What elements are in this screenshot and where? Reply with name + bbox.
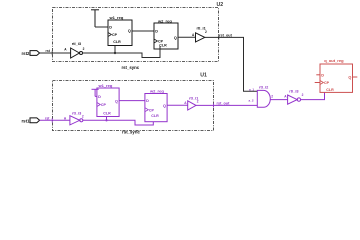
svg-text:U1: U1	[200, 73, 207, 79]
flip-flop w2_reg (U1)	[145, 88, 167, 121]
svg-text:CLR: CLR	[113, 40, 121, 44]
svg-text:rtl_i3: rtl_i3	[72, 41, 82, 46]
svg-text:rtl_i2: rtl_i2	[259, 85, 269, 90]
inverter rtl_i3 (U2)	[71, 48, 83, 58]
wire tick at U2 left boundary	[51, 51, 53, 55]
svg-text:rst_out: rst_out	[219, 33, 233, 37]
and gate rtl_i2	[257, 90, 270, 107]
wire inverter out to CLR nets (U2)	[83, 46, 160, 58]
svg-text:Q: Q	[115, 99, 118, 103]
power VDD (U2)	[91, 10, 99, 27]
wire rst1 to inverter	[40, 119, 70, 121]
wire w2_reg Q to buffer	[178, 36, 196, 38]
svg-text:rst_out: rst_out	[217, 101, 231, 105]
wire and gate to inverter	[270, 99, 287, 101]
wire inverter to q1_reg CLR	[301, 92, 325, 99]
svg-text:CP: CP	[149, 108, 155, 112]
svg-text:rtl_i3: rtl_i3	[289, 88, 299, 93]
svg-text:rst_sync: rst_sync	[122, 130, 140, 135]
svg-text:CLR: CLR	[326, 88, 334, 92]
wire inverter out to CLR nets (U1)	[83, 120, 153, 125]
flip-flop q1_reg	[315, 58, 358, 92]
svg-text:q_out_reg: q_out_reg	[324, 58, 344, 63]
wire rst_out (U1) to and gate	[196, 104, 257, 106]
svg-text:rst_sync: rst_sync	[121, 65, 139, 70]
svg-text:CLR: CLR	[159, 43, 167, 47]
svg-text:2: 2	[82, 114, 84, 118]
wire tick at U1 right boundary	[213, 103, 215, 107]
wire VDD to D of w1_reg (U1)	[95, 95, 97, 97]
flip-flop w1_reg (U2)	[108, 15, 132, 46]
wire VDD to D of w1_reg	[95, 26, 108, 28]
svg-text:Q: Q	[348, 76, 351, 80]
wire Q stub	[353, 76, 358, 78]
svg-text:2: 2	[83, 47, 85, 51]
svg-text:w2_reg: w2_reg	[149, 88, 164, 93]
svg-text:CP: CP	[324, 81, 330, 85]
module box U2	[53, 8, 219, 62]
junction	[114, 52, 116, 54]
svg-text:rst2: rst2	[21, 51, 30, 56]
wire CLR stub w1_reg	[114, 46, 116, 54]
svg-text:2: 2	[197, 99, 199, 103]
svg-text:rst1: rst1	[21, 118, 30, 123]
svg-text:D: D	[109, 26, 112, 30]
wire w1_reg Q to w2_reg D	[132, 30, 154, 32]
svg-text:CP: CP	[101, 103, 107, 107]
module box U1	[53, 81, 214, 131]
buffer rtl_i1 (U2)	[196, 33, 205, 42]
wire CLR stub w1_reg (U1)	[106, 117, 108, 121]
wire D stub	[316, 74, 320, 76]
svg-text:CLR: CLR	[151, 114, 159, 118]
svg-text:w2_reg: w2_reg	[157, 18, 172, 23]
wire CP stub	[315, 82, 320, 84]
svg-text:Q: Q	[174, 36, 177, 40]
flip-flop w1_reg (U1)	[97, 83, 119, 117]
wire rst2 to inverter	[40, 52, 71, 54]
svg-text:2: 2	[205, 30, 207, 34]
wire w2_reg Q to buffer (U1)	[167, 104, 188, 106]
svg-text:rtl_i3: rtl_i3	[72, 111, 82, 116]
svg-text:w1_reg: w1_reg	[109, 15, 124, 20]
svg-text:w1_reg: w1_reg	[98, 83, 113, 88]
wire rst_out (U2) to and gate	[205, 37, 257, 91]
buffer rtl_i1 (U1)	[188, 101, 196, 110]
junction	[105, 119, 107, 121]
svg-text:D: D	[98, 95, 101, 99]
svg-text:D: D	[146, 99, 149, 103]
svg-text:D: D	[155, 30, 158, 34]
svg-text:Q: Q	[163, 104, 166, 108]
input port rst1	[21, 118, 39, 124]
power VDD (U1)	[92, 89, 99, 96]
svg-text:CP: CP	[112, 33, 118, 37]
svg-text:2: 2	[271, 95, 273, 99]
inverter rtl_i3 (top-level)	[288, 95, 301, 104]
svg-text:Q: Q	[128, 29, 131, 33]
svg-text:D: D	[321, 74, 324, 78]
inverter rtl_i3 (U1)	[70, 116, 83, 125]
wire tick at U2 right boundary	[218, 35, 220, 39]
flip-flop w2_reg (U2)	[154, 18, 178, 49]
svg-text:a_1: a_1	[249, 88, 254, 92]
svg-text:U2: U2	[217, 2, 224, 8]
input port rst2	[21, 51, 39, 56]
wire tick at U1 left boundary	[51, 118, 53, 122]
wire w1_reg Q to w2_reg D (U1)	[119, 100, 145, 102]
svg-text:CLR: CLR	[103, 111, 111, 115]
svg-text:2: 2	[302, 93, 304, 97]
svg-text:a_2: a_2	[248, 99, 253, 103]
